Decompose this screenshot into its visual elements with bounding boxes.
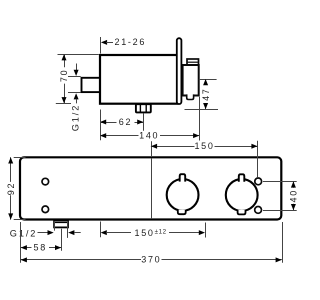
concealed box bottom tab bbox=[187, 94, 194, 99]
main body (side view) bbox=[100, 55, 177, 104]
outlet fitting under body (hex nut side view) bbox=[136, 104, 151, 112]
svg-text:62: 62 bbox=[119, 117, 132, 127]
dim 47 extension lines bbox=[199, 79, 217, 81]
svg-text:150: 150 bbox=[194, 141, 214, 151]
G1/2 arrows (front view) bbox=[38, 232, 49, 234]
svg-text:47: 47 bbox=[201, 87, 211, 100]
dim 47 line bbox=[205, 79, 207, 85]
dim 370 line bbox=[21, 259, 141, 261]
dim 40 extensions bbox=[263, 181, 297, 183]
G1/2 label (top view) extension lines bbox=[68, 76, 81, 78]
svg-text:92: 92 bbox=[6, 182, 16, 195]
function hole bottom-right bbox=[255, 207, 262, 214]
svg-text:40: 40 bbox=[289, 189, 299, 202]
G1/2 label (top view) arrows bbox=[76, 64, 78, 71]
knob 2 bottom tab bbox=[238, 210, 246, 215]
svg-text:370: 370 bbox=[141, 255, 161, 265]
dim 58 line bbox=[21, 247, 32, 249]
svg-text:G1/2: G1/2 bbox=[70, 104, 80, 132]
svg-text:70: 70 bbox=[59, 69, 69, 82]
knob 2 top nub bbox=[239, 174, 245, 181]
dim 70 extension lines bbox=[58, 54, 99, 56]
screw hole bottom-left bbox=[42, 206, 49, 213]
dim 150±12 line bbox=[101, 230, 107, 235]
knob 2 (right handle) bbox=[226, 179, 258, 211]
dim 370 extensions bbox=[20, 222, 22, 263]
knob 1 (left handle) bbox=[167, 179, 199, 211]
dim 92 extensions bbox=[14, 157, 26, 159]
wall plate (stadium shape) bbox=[177, 38, 182, 104]
svg-text:G1/2: G1/2 bbox=[10, 228, 38, 238]
concealed box top tab (threaded connector) bbox=[187, 59, 199, 66]
svg-text:21-26: 21-26 bbox=[115, 37, 147, 47]
svg-text:140: 140 bbox=[139, 130, 159, 140]
dim 140 left extension bbox=[100, 110, 102, 141]
dim 92 line bbox=[10, 157, 12, 182]
G1/2 label (front view) extensions bbox=[54, 221, 56, 231]
dim 140 line bbox=[100, 135, 139, 137]
dim 150 (top of front view) extensions bbox=[151, 141, 153, 157]
front body bbox=[20, 157, 281, 219]
dim 62 line bbox=[100, 122, 117, 124]
outlet fitting under front body bbox=[54, 221, 68, 228]
mounting centreline (dashed) bbox=[151, 159, 153, 220]
knob 1 top nub bbox=[180, 174, 186, 181]
dim 21-26 arrow + tail bbox=[101, 40, 107, 45]
dim 150±12 extensions bbox=[100, 222, 102, 238]
dim 150 line bbox=[151, 146, 195, 148]
dim 40 line bbox=[293, 181, 295, 187]
outlet centreline extension bbox=[143, 113, 145, 131]
screw hole top-left bbox=[42, 178, 49, 185]
dim 58 extension bbox=[61, 229, 63, 251]
function hole top-right bbox=[255, 178, 262, 185]
svg-text:58: 58 bbox=[33, 242, 46, 252]
union nut G1/2 (side view, left of body) bbox=[82, 78, 101, 92]
dim 21-26 extension line bbox=[100, 37, 102, 54]
dim 140 right extension bbox=[199, 97, 201, 141]
dim 70 line bbox=[64, 54, 66, 67]
concealed box (behind wall) bbox=[183, 65, 199, 96]
knob 1 bottom tab bbox=[178, 210, 186, 214]
